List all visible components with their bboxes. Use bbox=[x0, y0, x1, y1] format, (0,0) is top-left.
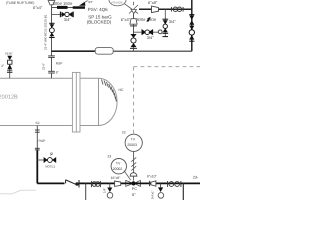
svg-text:(TUBE RUPTURE): (TUBE RUPTURE) bbox=[6, 1, 35, 5]
wire NC stub bbox=[37, 159, 43, 161]
valve ball on vent riser bbox=[49, 23, 54, 37]
flanged spool bottom1 bbox=[91, 181, 100, 187]
silencer capsule bbox=[95, 48, 113, 55]
faint background pipe bottom-left bbox=[0, 190, 36, 194]
svg-text:23: 23 bbox=[122, 130, 126, 134]
vessel head hatching bbox=[102, 80, 117, 102]
pipe band through drum bbox=[72, 72, 80, 132]
wire 3/4 line y=14.4 bbox=[52, 13, 74, 15]
wire right riser x=191.8 bbox=[191, 0, 193, 51]
dashed boundary bbox=[134, 67, 201, 134]
vessel drum outline bbox=[0, 78, 117, 125]
svg-text:3/4": 3/4" bbox=[147, 35, 155, 40]
svg-text:20012B: 20012B bbox=[0, 94, 18, 100]
svg-text:23-4"-WK-BC31-20125-B1: 23-4"-WK-BC31-20125-B1 bbox=[44, 14, 48, 50]
spec break mark bbox=[146, 17, 151, 21]
svg-text:3/4": 3/4" bbox=[64, 17, 72, 22]
wire tube-rupture vent riser bbox=[51, 5, 53, 56]
valve NC ball bbox=[44, 157, 57, 163]
svg-text:PSV: 4Q6: PSV: 4Q6 bbox=[88, 7, 108, 12]
svg-text:6"x4": 6"x4" bbox=[121, 17, 131, 22]
drain funnel 1 bbox=[109, 183, 111, 187]
svg-text:1/4": 1/4" bbox=[102, 188, 106, 193]
wire PSV tail column x=133.5 bbox=[133, 14, 135, 19]
svg-text:PSV4Q6: PSV4Q6 bbox=[112, 0, 123, 4]
leader line balloon to PSV bbox=[125, 4, 139, 14]
svg-text:23-6": 23-6" bbox=[42, 63, 46, 70]
svg-text:3/4": 3/4" bbox=[169, 19, 177, 24]
wire bottom main line y=183.4 bbox=[37, 182, 64, 184]
valve ball below PSV bbox=[130, 34, 137, 49]
spec break bar 1 bbox=[57, 6, 68, 9]
svg-text:3/4"x1": 3/4"x1" bbox=[151, 190, 155, 199]
drain funnel 2 bbox=[160, 183, 162, 187]
wire stub down x=183.3 bbox=[182, 183, 184, 200]
svg-text:2": 2" bbox=[1, 64, 4, 68]
svg-text:NOTE1: NOTE1 bbox=[45, 165, 55, 169]
svg-text:8"x10": 8"x10" bbox=[147, 175, 158, 179]
valve ball 3/4 horizontal bbox=[60, 12, 73, 18]
control valve body bbox=[126, 180, 141, 186]
valve ball on riser bbox=[189, 26, 194, 42]
svg-text:6"x8": 6"x8" bbox=[148, 0, 158, 5]
funnel atmospheric vent bbox=[48, 1, 55, 5]
wire signal line TV20003 to valve bbox=[133, 151, 135, 173]
svg-text:VENT: VENT bbox=[5, 52, 13, 56]
svg-text:RSP: RSP bbox=[56, 61, 63, 65]
svg-text:HC: HC bbox=[119, 88, 124, 92]
PSV outlet reducer trapezoid bbox=[130, 19, 137, 25]
RSP flanges bbox=[35, 130, 40, 150]
svg-text:RSP: RSP bbox=[39, 139, 47, 143]
svg-text:S2: S2 bbox=[35, 121, 39, 125]
svg-text:23-: 23- bbox=[193, 175, 199, 179]
wire 3/4 bypass y=32.2 bbox=[134, 31, 159, 33]
instrument TV-20002 bbox=[107, 155, 126, 174]
svg-text:20003: 20003 bbox=[127, 143, 137, 147]
reducer 16x8 bbox=[115, 181, 121, 186]
valve ball 3/4 bbox=[142, 29, 154, 35]
svg-text:23: 23 bbox=[107, 155, 111, 159]
valve vent 2in bbox=[7, 56, 12, 73]
RSP spool flanges bbox=[48, 56, 55, 73]
valve gate on riser bbox=[189, 15, 194, 25]
flanged spool top bbox=[172, 7, 184, 12]
wire drain line from drum x=37.3 bbox=[36, 126, 38, 151]
svg-text:(BLOCKED): (BLOCKED) bbox=[87, 19, 112, 24]
wire top main line y=9.3 bbox=[139, 8, 192, 10]
svg-text:6"x4": 6"x4" bbox=[33, 5, 43, 10]
instrument balloon top bbox=[109, 0, 126, 6]
svg-text:TV: TV bbox=[131, 138, 136, 142]
svg-text:300# 150#: 300# 150# bbox=[53, 1, 73, 6]
flanged spool bottom2 bbox=[168, 181, 181, 187]
svg-text:20002: 20002 bbox=[113, 167, 123, 171]
valve ball on drop bbox=[162, 19, 168, 36]
valve angle vent at end bbox=[79, 2, 86, 6]
check valve bbox=[66, 180, 79, 188]
reducer 8x10 bbox=[149, 181, 151, 186]
svg-text:6": 6" bbox=[56, 70, 59, 74]
PSV relief valve symbol bbox=[129, 2, 138, 14]
svg-text:FC: FC bbox=[132, 187, 137, 191]
flange bbox=[130, 25, 137, 27]
reducer 6x8 bbox=[152, 6, 159, 13]
wire flare header y=51.2 bbox=[52, 50, 96, 52]
svg-text:TV: TV bbox=[116, 161, 121, 165]
wire spec break line y=7.5 bbox=[52, 7, 86, 9]
instrument TV-20003 bbox=[122, 130, 143, 151]
wire vent riser left bbox=[9, 60, 11, 78]
wire stub down x=85.7 bbox=[85, 183, 87, 200]
wire leader TV20002 to valve bbox=[124, 171, 131, 181]
control valve actuator dome bbox=[130, 173, 137, 176]
spec break bar 2 bbox=[73, 6, 85, 9]
svg-text:16"x8": 16"x8" bbox=[111, 176, 122, 180]
wire bypass drop x=165.3 bbox=[164, 9, 166, 37]
svg-text:3/4": 3/4" bbox=[88, 0, 93, 4]
